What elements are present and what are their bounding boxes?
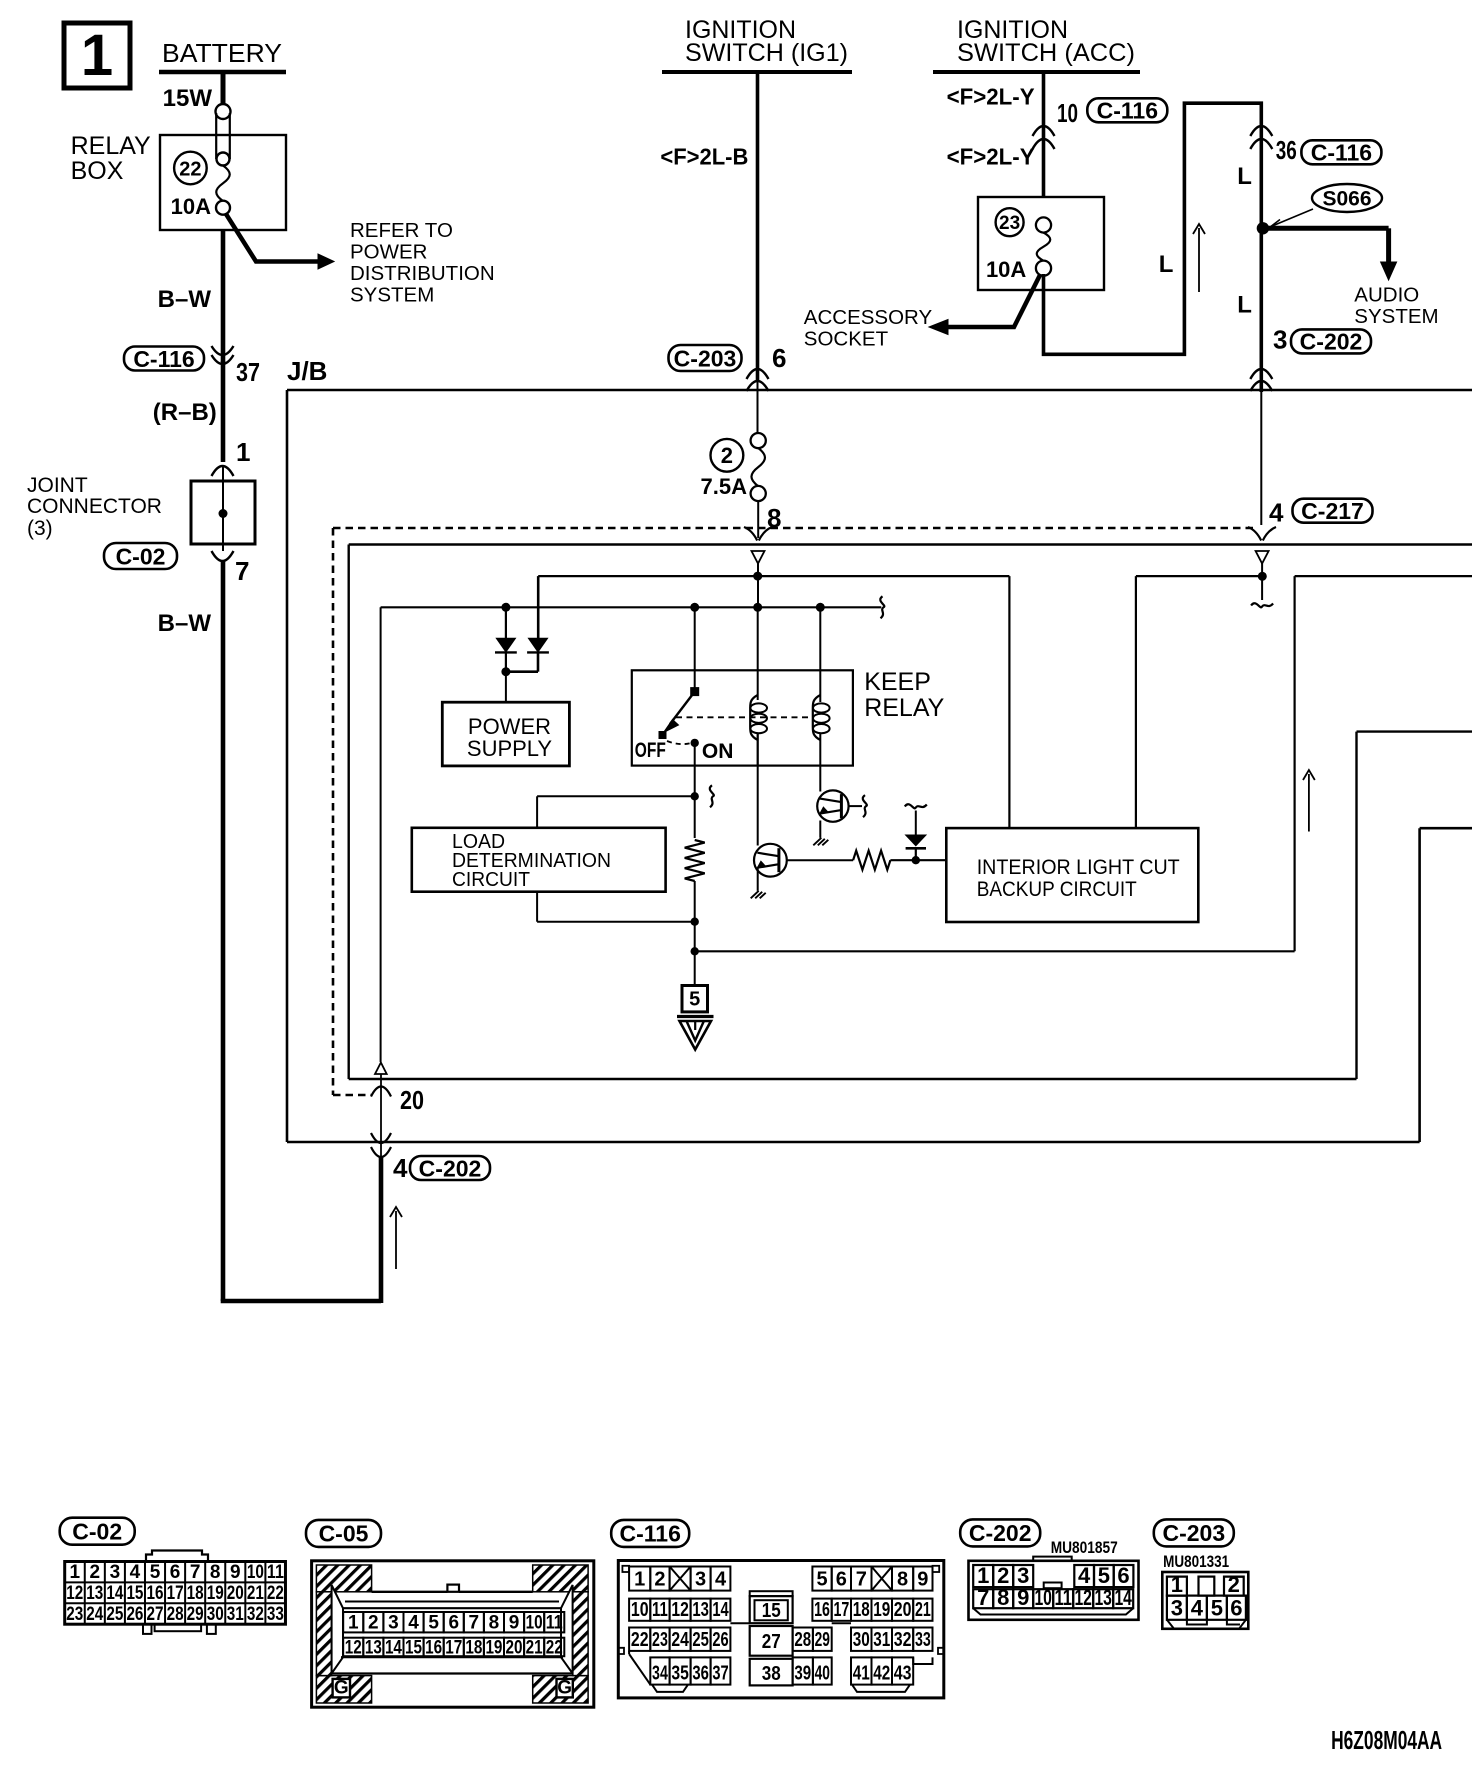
svg-text:(3): (3) <box>27 517 53 540</box>
svg-text:J/B: J/B <box>287 356 327 386</box>
svg-text:9: 9 <box>230 1562 241 1583</box>
svg-text:29: 29 <box>815 1629 830 1651</box>
svg-text:24: 24 <box>671 1629 689 1651</box>
svg-text:23: 23 <box>66 1604 83 1625</box>
svg-text:POWER: POWER <box>350 241 427 264</box>
svg-text:43: 43 <box>894 1663 912 1685</box>
svg-text:41: 41 <box>853 1663 870 1685</box>
svg-text:10: 10 <box>526 1613 543 1634</box>
svg-text:25: 25 <box>106 1604 123 1625</box>
svg-text:23: 23 <box>652 1629 668 1651</box>
svg-text:32: 32 <box>894 1629 912 1651</box>
svg-text:11: 11 <box>267 1562 284 1583</box>
svg-text:2: 2 <box>1228 1572 1240 1597</box>
svg-text:G: G <box>334 1678 349 1699</box>
svg-text:10A: 10A <box>986 257 1026 282</box>
svg-text:16: 16 <box>425 1637 442 1658</box>
svg-text:26: 26 <box>126 1604 143 1625</box>
svg-text:C-116: C-116 <box>133 346 194 372</box>
svg-text:4: 4 <box>393 1153 408 1183</box>
svg-text:C-217: C-217 <box>1301 498 1364 524</box>
svg-text:14: 14 <box>712 1599 729 1621</box>
svg-text:OFF: OFF <box>635 739 666 762</box>
svg-text:H6Z08M04AA: H6Z08M04AA <box>1331 1725 1442 1755</box>
svg-text:B–W: B–W <box>158 286 212 313</box>
svg-text:(R–B): (R–B) <box>153 399 217 426</box>
svg-text:6: 6 <box>448 1613 459 1634</box>
svg-text:KEEP: KEEP <box>864 668 931 696</box>
svg-text:2: 2 <box>90 1562 101 1583</box>
svg-text:20: 20 <box>400 1085 424 1115</box>
svg-text:5: 5 <box>689 989 700 1011</box>
svg-text:C-116: C-116 <box>1311 140 1372 166</box>
svg-text:10: 10 <box>1034 1585 1052 1610</box>
svg-text:15: 15 <box>762 1600 781 1622</box>
svg-text:INTERIOR LIGHT CUT: INTERIOR LIGHT CUT <box>977 855 1180 879</box>
svg-text:36: 36 <box>1276 135 1297 165</box>
svg-text:8: 8 <box>997 1585 1009 1610</box>
svg-text:1: 1 <box>69 1562 80 1583</box>
svg-text:10: 10 <box>247 1562 264 1583</box>
svg-text:9: 9 <box>917 1569 928 1591</box>
svg-text:SWITCH (ACC): SWITCH (ACC) <box>957 39 1135 67</box>
svg-text:7: 7 <box>235 556 249 586</box>
svg-text:12: 12 <box>671 1599 689 1621</box>
svg-text:C-116: C-116 <box>1097 98 1158 124</box>
svg-text:18: 18 <box>465 1637 482 1658</box>
svg-text:28: 28 <box>167 1604 184 1625</box>
svg-text:CONNECTOR: CONNECTOR <box>27 495 162 518</box>
svg-text:S066: S066 <box>1322 188 1371 211</box>
svg-text:22: 22 <box>267 1583 284 1604</box>
svg-text:C-202: C-202 <box>969 1520 1032 1546</box>
svg-text:28: 28 <box>794 1629 811 1651</box>
svg-text:1: 1 <box>81 23 113 88</box>
svg-text:14: 14 <box>1114 1585 1132 1610</box>
svg-text:ON: ON <box>702 740 734 763</box>
svg-text:7: 7 <box>469 1613 480 1634</box>
svg-text:C-116: C-116 <box>620 1521 681 1547</box>
svg-text:3: 3 <box>388 1613 399 1634</box>
svg-text:CIRCUIT: CIRCUIT <box>452 869 530 891</box>
svg-text:26: 26 <box>712 1629 728 1651</box>
svg-text:1: 1 <box>348 1613 359 1634</box>
svg-text:36: 36 <box>692 1663 709 1685</box>
svg-text:19: 19 <box>485 1637 502 1658</box>
svg-text:<F>2L-Y: <F>2L-Y <box>947 84 1035 110</box>
svg-text:1: 1 <box>634 1569 645 1591</box>
svg-text:G: G <box>557 1678 572 1699</box>
svg-text:BATTERY: BATTERY <box>162 38 282 68</box>
svg-text:35: 35 <box>671 1663 689 1685</box>
svg-text:SYSTEM: SYSTEM <box>350 284 434 307</box>
svg-text:RELAY: RELAY <box>71 132 151 160</box>
svg-text:DISTRIBUTION: DISTRIBUTION <box>350 262 495 285</box>
svg-text:12: 12 <box>1074 1585 1092 1610</box>
svg-text:JOINT: JOINT <box>27 474 88 497</box>
svg-text:7: 7 <box>977 1585 989 1610</box>
svg-text:2: 2 <box>721 443 733 468</box>
svg-text:20: 20 <box>506 1637 523 1658</box>
svg-text:21: 21 <box>526 1637 543 1658</box>
svg-text:42: 42 <box>873 1663 890 1685</box>
svg-text:37: 37 <box>712 1663 728 1685</box>
svg-text:21: 21 <box>915 1599 931 1621</box>
svg-text:BACKUP CIRCUIT: BACKUP CIRCUIT <box>977 877 1137 901</box>
svg-text:C-02: C-02 <box>116 543 166 569</box>
svg-text:18: 18 <box>853 1599 870 1621</box>
svg-text:3: 3 <box>695 1569 706 1591</box>
svg-text:3: 3 <box>1273 325 1287 355</box>
svg-text:L: L <box>1237 292 1252 319</box>
svg-text:1: 1 <box>236 437 250 467</box>
svg-text:3: 3 <box>1171 1596 1183 1621</box>
svg-text:29: 29 <box>187 1604 204 1625</box>
svg-text:C-202: C-202 <box>419 1155 482 1181</box>
svg-text:15: 15 <box>405 1637 422 1658</box>
svg-text:MU801857: MU801857 <box>1051 1538 1118 1557</box>
svg-text:7: 7 <box>856 1569 867 1591</box>
svg-text:27: 27 <box>147 1604 164 1625</box>
svg-text:5: 5 <box>816 1569 827 1591</box>
svg-text:33: 33 <box>915 1629 931 1651</box>
svg-text:10: 10 <box>631 1599 649 1621</box>
svg-text:19: 19 <box>207 1583 224 1604</box>
svg-text:RELAY: RELAY <box>864 694 944 722</box>
svg-text:11: 11 <box>546 1613 563 1634</box>
svg-text:12: 12 <box>345 1637 362 1658</box>
svg-text:3: 3 <box>110 1562 121 1583</box>
svg-text:8: 8 <box>489 1613 500 1634</box>
svg-text:5: 5 <box>428 1613 439 1634</box>
svg-text:38: 38 <box>762 1663 781 1685</box>
svg-text:32: 32 <box>247 1604 264 1625</box>
svg-text:REFER TO: REFER TO <box>350 219 453 242</box>
svg-text:34: 34 <box>652 1663 668 1685</box>
svg-text:10: 10 <box>1057 98 1078 128</box>
svg-text:31: 31 <box>873 1629 890 1651</box>
svg-text:22: 22 <box>179 159 201 181</box>
svg-text:C-203: C-203 <box>1162 1520 1225 1546</box>
svg-text:C-202: C-202 <box>1300 329 1363 355</box>
svg-text:13: 13 <box>86 1583 103 1604</box>
svg-text:13: 13 <box>365 1637 382 1658</box>
svg-text:C-02: C-02 <box>72 1518 122 1544</box>
svg-text:L: L <box>1237 163 1252 190</box>
svg-text:MU801331: MU801331 <box>1163 1552 1229 1571</box>
svg-text:8: 8 <box>210 1562 221 1583</box>
svg-text:17: 17 <box>833 1599 849 1621</box>
svg-text:16: 16 <box>147 1583 164 1604</box>
svg-text:10A: 10A <box>171 194 211 219</box>
svg-text:20: 20 <box>894 1599 912 1621</box>
svg-text:<F>2L-B: <F>2L-B <box>660 144 748 170</box>
svg-text:12: 12 <box>66 1583 83 1604</box>
svg-text:6: 6 <box>170 1562 181 1583</box>
svg-text:7.5A: 7.5A <box>701 474 748 499</box>
svg-text:13: 13 <box>692 1599 709 1621</box>
svg-text:40: 40 <box>815 1663 830 1685</box>
svg-text:9: 9 <box>509 1613 520 1634</box>
svg-text:14: 14 <box>385 1637 402 1658</box>
svg-text:37: 37 <box>236 357 260 387</box>
svg-text:SWITCH (IG1): SWITCH (IG1) <box>685 39 848 67</box>
svg-text:8: 8 <box>897 1569 908 1591</box>
svg-text:SUPPLY: SUPPLY <box>467 736 553 761</box>
svg-text:16: 16 <box>814 1599 830 1621</box>
svg-text:7: 7 <box>190 1562 201 1583</box>
svg-text:17: 17 <box>445 1637 462 1658</box>
svg-text:C-05: C-05 <box>319 1521 369 1547</box>
svg-text:18: 18 <box>187 1583 204 1604</box>
svg-text:14: 14 <box>106 1583 123 1604</box>
svg-text:11: 11 <box>1054 1585 1072 1610</box>
svg-text:1: 1 <box>1171 1572 1183 1597</box>
svg-text:13: 13 <box>1094 1585 1112 1610</box>
svg-text:ACCESSORY: ACCESSORY <box>804 306 933 329</box>
svg-text:33: 33 <box>267 1604 284 1625</box>
svg-text:2: 2 <box>654 1569 665 1591</box>
svg-text:5: 5 <box>1211 1596 1223 1621</box>
svg-text:20: 20 <box>227 1583 244 1604</box>
svg-text:C-203: C-203 <box>674 345 737 371</box>
svg-text:6: 6 <box>836 1569 847 1591</box>
svg-text:17: 17 <box>167 1583 184 1604</box>
svg-text:4: 4 <box>715 1569 727 1591</box>
svg-text:SOCKET: SOCKET <box>804 328 889 351</box>
svg-text:30: 30 <box>207 1604 224 1625</box>
svg-text:2: 2 <box>368 1613 379 1634</box>
svg-text:31: 31 <box>227 1604 244 1625</box>
svg-text:15W: 15W <box>163 85 213 112</box>
svg-text:SYSTEM: SYSTEM <box>1354 305 1438 328</box>
svg-text:BOX: BOX <box>71 157 124 185</box>
svg-text:19: 19 <box>873 1599 890 1621</box>
svg-text:4: 4 <box>1269 498 1284 528</box>
svg-text:24: 24 <box>86 1604 103 1625</box>
svg-text:22: 22 <box>631 1629 649 1651</box>
svg-text:11: 11 <box>652 1599 668 1621</box>
svg-text:6: 6 <box>1230 1596 1242 1621</box>
svg-text:6: 6 <box>772 343 786 373</box>
svg-text:25: 25 <box>692 1629 709 1651</box>
svg-text:4: 4 <box>130 1562 141 1583</box>
svg-text:4: 4 <box>408 1613 419 1634</box>
svg-text:30: 30 <box>853 1629 870 1651</box>
svg-text:AUDIO: AUDIO <box>1354 284 1419 307</box>
svg-text:9: 9 <box>1017 1585 1029 1610</box>
svg-text:21: 21 <box>247 1583 264 1604</box>
svg-text:L: L <box>1159 251 1174 278</box>
svg-text:<F>2L-Y: <F>2L-Y <box>947 144 1035 170</box>
svg-text:23: 23 <box>999 213 1020 234</box>
svg-text:39: 39 <box>794 1663 811 1685</box>
svg-text:5: 5 <box>150 1562 161 1583</box>
svg-text:22: 22 <box>546 1637 563 1658</box>
svg-text:27: 27 <box>762 1631 781 1653</box>
svg-text:15: 15 <box>126 1583 143 1604</box>
svg-text:B–W: B–W <box>158 610 212 637</box>
svg-text:4: 4 <box>1191 1596 1204 1621</box>
